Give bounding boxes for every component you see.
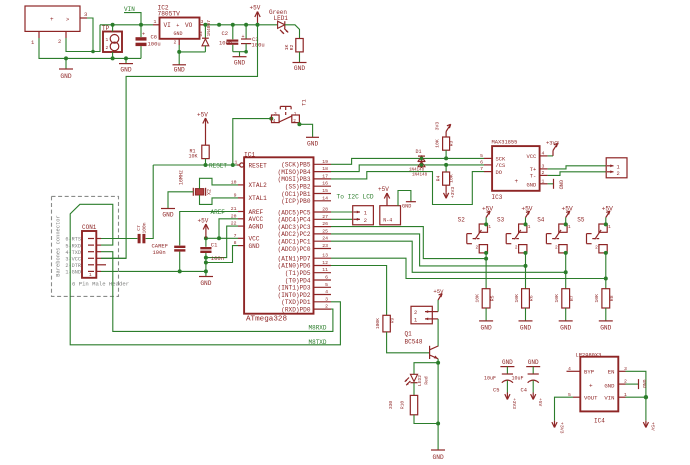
svg-text:9: 9: [234, 192, 237, 198]
pin 20 AVCC: [231, 213, 244, 219]
wire R7 to ground: [565, 308, 567, 321]
dual diode D1 1N4148: [409, 149, 428, 178]
svg-text:VCC: VCC: [249, 236, 260, 243]
supply +3V3 output arrow: [552, 421, 564, 434]
wire R2 to ground: [299, 52, 301, 63]
pin 21 AREF: [231, 206, 244, 212]
svg-text:GND: GND: [174, 31, 183, 37]
wire LED2 branch top: [414, 363, 438, 375]
svg-text:IC4: IC4: [594, 418, 605, 425]
svg-text:100n: 100n: [142, 222, 148, 233]
svg-text:XTAL2: XTAL2: [249, 182, 268, 189]
wire R1 to reset net: [205, 159, 207, 165]
junction S3 top pad: [524, 222, 528, 226]
svg-text:3V3: 3V3: [435, 122, 441, 131]
svg-text:+5V: +5V: [602, 205, 613, 212]
wire SCK pin19 to IC3: [331, 158, 484, 164]
svg-text:C1: C1: [211, 241, 218, 248]
resistor R2 1K: [284, 39, 303, 52]
svg-text:100u: 100u: [148, 41, 161, 48]
svg-text:1: 1: [528, 225, 531, 230]
supply +3V3 at IC3 VCC: [546, 141, 559, 156]
pin 13 PD7: [314, 253, 332, 259]
svg-text:24: 24: [322, 236, 328, 242]
diode D2 1N4007: [198, 20, 212, 52]
svg-text:VIN: VIN: [604, 395, 614, 402]
terminal block TP: [102, 25, 122, 52]
pin 19 PB5: [314, 159, 332, 165]
pin 7 VCC: [234, 233, 244, 239]
svg-text:R10: R10: [399, 401, 405, 410]
pin 25 PC2: [314, 228, 332, 234]
svg-text:T+: T+: [530, 167, 536, 173]
pin 3 of X1: [80, 11, 87, 18]
svg-text:10K: 10K: [435, 139, 441, 148]
svg-text:4: 4: [542, 151, 545, 157]
pin 5 SCK of IC3: [480, 153, 492, 159]
wire XTAL1 loop: [200, 195, 239, 204]
pin 23 PC0: [314, 243, 332, 249]
junction TP ground: [111, 56, 115, 60]
junction S3 sense line: [524, 264, 528, 268]
svg-text:AREF: AREF: [211, 209, 226, 216]
transistor Q1 BC548: [405, 331, 439, 360]
pin 2 GND of IC4: [618, 379, 627, 385]
svg-text:S4: S4: [537, 217, 545, 224]
junction R4: [444, 163, 448, 167]
wire PD7 pin13 to S5: [331, 258, 606, 278]
svg-text:2: 2: [542, 170, 545, 176]
wire S5 column: [605, 253, 607, 289]
capacitor C6 100u: [136, 25, 161, 59]
svg-text:2: 2: [475, 246, 478, 251]
svg-text:4-TXD: 4-TXD: [65, 250, 81, 256]
junction spare on rail: [217, 23, 221, 27]
pin 4 PD2: [314, 289, 332, 295]
svg-text:1: 1: [235, 160, 238, 166]
svg-text:1-GND: 1-GND: [65, 270, 81, 276]
ground under R2: [293, 63, 307, 73]
wire R6 to ground: [525, 308, 527, 321]
svg-text:+5V: +5V: [537, 398, 543, 407]
resistor R1 10K: [189, 145, 210, 159]
wire PC2 pin25 to S3: [331, 234, 526, 266]
svg-text:3: 3: [542, 164, 545, 170]
svg-text:+5V: +5V: [378, 186, 389, 193]
svg-text:2: 2: [595, 246, 598, 251]
pushbutton S3: [497, 217, 531, 253]
thermocouple interface IC3 MAX31855: [492, 140, 540, 201]
svg-text:14: 14: [322, 195, 328, 201]
resistor R5 10K: [475, 289, 496, 308]
ground at crystal: [161, 209, 175, 219]
svg-text:GND: GND: [481, 325, 492, 332]
svg-text:XTAL1: XTAL1: [249, 195, 268, 202]
svg-text:3: 3: [274, 112, 277, 117]
svg-text:R7: R7: [569, 295, 575, 301]
svg-text:AREF: AREF: [249, 209, 264, 216]
capacitor C1 100n: [200, 238, 224, 276]
pin 14 PB0: [314, 195, 332, 201]
svg-text:GND: GND: [560, 325, 571, 332]
wire R10 branch bottom: [414, 415, 438, 424]
svg-text:16MHz: 16MHz: [179, 170, 185, 185]
svg-text:100n: 100n: [211, 255, 224, 262]
wire EN to VIN: [626, 371, 646, 397]
capacitor CAREF 100n: [152, 242, 186, 271]
pin 12 PD6: [314, 260, 332, 266]
microcontroller IC1 ATmega328: [244, 151, 314, 323]
pin 3 Tplus of IC3: [540, 164, 548, 170]
wire DO pin17 loop to IC3: [331, 172, 484, 205]
junction C2 on rail: [231, 23, 235, 27]
svg-text:To I2C LCD: To I2C LCD: [337, 194, 374, 201]
svg-text:3-VCC: 3-VCC: [65, 257, 81, 263]
supply +5V input arrow: [643, 421, 655, 431]
svg-text:2: 2: [293, 119, 296, 124]
resistor R4 10K: [436, 172, 455, 185]
pin 3 PD1: [314, 296, 332, 302]
ground under R5: [479, 321, 493, 332]
svg-text:T1: T1: [301, 99, 308, 106]
svg-text:(TXD)PD1: (TXD)PD1: [281, 299, 311, 306]
ground under R8: [599, 321, 613, 332]
junction C3 on rail: [244, 23, 248, 27]
svg-text:330: 330: [388, 401, 394, 410]
svg-text:3: 3: [325, 296, 328, 302]
wire R9 to Q1 base: [387, 332, 430, 353]
svg-text:CON1: CON1: [82, 224, 97, 231]
ground under IC2: [173, 65, 187, 74]
junction S3 bottom pad: [524, 251, 528, 255]
wire jack pin2 up-over to input rail: [66, 25, 100, 52]
power jack X1: [25, 6, 80, 31]
pin 2 of X1: [58, 31, 66, 45]
svg-text:1N4007: 1N4007: [206, 20, 212, 37]
svg-text:2: 2: [414, 310, 417, 316]
wire SDA pin28 to LCD connector: [331, 211, 353, 213]
svg-text:+3V3: +3V3: [511, 398, 517, 409]
svg-text:2-DTR: 2-DTR: [65, 263, 81, 269]
svg-text:1: 1: [106, 37, 109, 43]
svg-text:VOUT: VOUT: [584, 395, 598, 402]
regulator IC4 LP2980: [576, 352, 619, 424]
wire AVCC to VCC node: [219, 219, 238, 239]
svg-text:100n: 100n: [219, 40, 232, 47]
svg-text:(INT1)PD3: (INT1)PD3: [278, 285, 311, 292]
svg-text:GND: GND: [234, 60, 245, 67]
pin IC2 GND stub: [178, 39, 180, 45]
ground under C1: [199, 277, 213, 288]
junction +5V distribution drop: [256, 23, 260, 27]
svg-text:15: 15: [322, 188, 328, 194]
connector LCD data: [353, 206, 374, 225]
svg-text:LED1: LED1: [274, 15, 289, 22]
junction S2 bottom pad: [484, 251, 488, 255]
junction S4 top pad: [564, 222, 568, 226]
svg-text:(OC1)PB1: (OC1)PB1: [281, 191, 311, 198]
svg-text:+: +: [515, 178, 519, 185]
svg-text:10K: 10K: [554, 294, 560, 303]
junction C6 ground gnd tap: [124, 56, 128, 60]
pin 15 PB1: [314, 188, 332, 194]
svg-text:10K: 10K: [475, 294, 481, 303]
svg-text:5-RXD: 5-RXD: [65, 243, 81, 249]
svg-text:R4: R4: [436, 176, 442, 182]
svg-text:2: 2: [515, 246, 518, 251]
capacitor C4 10uF: [512, 359, 543, 407]
wire SCL pin27 to LCD connector: [331, 218, 353, 220]
supply +5V at R1: [197, 112, 208, 146]
svg-text:+5V: +5V: [562, 205, 573, 212]
ground at LCD power: [402, 202, 416, 210]
svg-text:AGND: AGND: [249, 223, 264, 230]
svg-text:3: 3: [201, 19, 204, 25]
pin 4 VCC of IC3: [540, 151, 548, 157]
supply +3V3 below R4: [444, 185, 457, 198]
wire emitter down to ground: [437, 359, 439, 450]
svg-text:100K: 100K: [375, 318, 381, 329]
svg-text:(RXD)PD0: (RXD)PD0: [281, 307, 311, 314]
pin 11 PD5: [314, 267, 332, 273]
pin 6 PD4: [314, 275, 332, 281]
svg-text:1: 1: [608, 225, 611, 230]
svg-text:4: 4: [325, 289, 328, 295]
svg-text:R2: R2: [289, 45, 295, 51]
pin 6 RTS: [65, 237, 101, 243]
svg-text:19: 19: [322, 159, 328, 165]
svg-text:GND: GND: [641, 380, 647, 389]
junction VCC C1: [204, 236, 208, 240]
wire cap to reset vertical: [146, 165, 154, 239]
svg-text:C7: C7: [136, 225, 142, 231]
svg-text:GND: GND: [60, 73, 71, 80]
svg-text:RESET: RESET: [209, 163, 227, 170]
pushbutton T1: [272, 99, 308, 124]
svg-text:10K: 10K: [189, 154, 198, 160]
connector fan output: [411, 306, 438, 324]
resistor R8 10K: [594, 289, 615, 308]
pin 1 VIN: [618, 392, 627, 398]
resistor R9 100K: [375, 315, 396, 332]
junction C6 on rail: [139, 23, 143, 27]
wire GND pin8: [206, 246, 238, 263]
wire AGND: [206, 226, 238, 258]
pushbutton S5: [577, 217, 611, 253]
svg-text:(ADC0)PC0: (ADC0)PC0: [278, 246, 311, 253]
junction R1 reset: [204, 163, 208, 167]
svg-text:N-4: N-4: [383, 218, 392, 224]
pin 1 RESET of IC1 with bubble: [235, 160, 244, 168]
pin 6 CS of IC3: [480, 160, 492, 166]
pushbutton S4: [537, 217, 571, 253]
svg-text:C2: C2: [222, 30, 229, 37]
svg-text:5: 5: [480, 153, 483, 159]
svg-text:18: 18: [322, 166, 328, 172]
pin 1 of X1: [31, 31, 39, 46]
junction S1 left pad: [269, 117, 273, 121]
svg-text:1: 1: [414, 318, 417, 324]
svg-text:10K: 10K: [514, 294, 520, 303]
wire R3 to SCK line: [445, 150, 447, 158]
capacitor C3 100u: [241, 25, 265, 52]
pin IC2 VI stub: [153, 24, 160, 26]
svg-text:C5: C5: [493, 388, 499, 394]
junction EN VIN: [644, 395, 648, 399]
pin 5 PD3: [314, 282, 332, 288]
wire jack pin1 to ground rail: [39, 38, 141, 58]
svg-text:10K: 10K: [449, 174, 455, 183]
svg-text:6-RTS: 6-RTS: [65, 237, 81, 243]
svg-text:1: 1: [617, 164, 620, 170]
svg-text:(AIN1)PD7: (AIN1)PD7: [278, 255, 311, 262]
svg-text:GND: GND: [558, 180, 564, 189]
svg-text:7: 7: [480, 166, 483, 172]
svg-text:GND: GND: [604, 382, 615, 389]
wire XTAL2 loop: [200, 178, 239, 188]
svg-text:17: 17: [322, 173, 328, 179]
supply +3V3 at R3: [435, 122, 451, 137]
wire IC2 GND down: [178, 45, 180, 65]
pin 22 AGND: [231, 221, 244, 227]
svg-text:2: 2: [174, 40, 177, 46]
ground under Q1: [431, 450, 445, 461]
svg-text:6 Pin Male Header: 6 Pin Male Header: [72, 281, 129, 288]
wire VOUT to 3V3 arrow: [555, 397, 574, 421]
wire PC1 pin24 to S4: [331, 241, 566, 272]
svg-text:GND: GND: [433, 454, 444, 461]
svg-text:+: +: [50, 16, 54, 23]
svg-text:ATmega328: ATmega328: [246, 315, 287, 323]
wire R5 to ground: [485, 308, 487, 321]
svg-text:10uF: 10uF: [512, 375, 524, 381]
pin 8 GND: [234, 240, 244, 246]
svg-text:(SCK)PB5: (SCK)PB5: [281, 162, 311, 169]
svg-text:/CS: /CS: [496, 163, 506, 169]
junction D2 on rail: [203, 23, 207, 27]
svg-text:(T0)PD4: (T0)PD4: [285, 277, 311, 284]
svg-text:R9: R9: [390, 318, 396, 324]
svg-text:+5V: +5V: [250, 5, 261, 12]
ground at IC4: [626, 379, 648, 389]
svg-text:100n: 100n: [153, 249, 166, 256]
wire RESET net: [153, 164, 237, 166]
supply +5V at S5: [602, 205, 613, 224]
junction C1 gnd row: [204, 269, 208, 273]
pin 18 PB4: [314, 166, 332, 172]
svg-text:GND: GND: [526, 182, 536, 188]
junction AVCC VCC: [217, 236, 221, 240]
svg-text:13: 13: [322, 253, 328, 259]
LED LED1 Green: [269, 9, 288, 34]
wire R8 to ground: [605, 308, 607, 321]
svg-text:3: 3: [84, 11, 87, 18]
svg-text:C6: C6: [151, 34, 158, 41]
junction C3 ground link: [244, 50, 248, 54]
svg-text:1: 1: [364, 211, 367, 217]
wire +5V distribution: [101, 25, 258, 258]
svg-text:BC548: BC548: [405, 338, 423, 345]
svg-text:R3: R3: [449, 141, 455, 147]
dashed box barebones connector: [52, 196, 119, 296]
capacitor C2 100n: [219, 25, 238, 52]
junction S1 reset: [231, 163, 235, 167]
junction LED branch top: [436, 361, 440, 365]
pin 28 PC5: [314, 207, 332, 213]
junction TP on VIN rail: [111, 23, 115, 27]
junction S5 sense line: [604, 277, 608, 281]
junction CAREF gnd row: [178, 269, 182, 273]
junction LED branch bottom: [436, 422, 440, 426]
svg-text:GND: GND: [600, 325, 611, 332]
svg-text:100u: 100u: [252, 42, 265, 49]
wire CS pin18 to IC3: [331, 165, 484, 172]
wire S1 right pad to gnd: [299, 123, 312, 138]
supply +5V at fan connector: [433, 288, 444, 312]
wire VCC: [206, 237, 238, 239]
svg-text:+5V: +5V: [650, 422, 656, 431]
pin 16 PB2: [314, 181, 332, 187]
wire VIN row: [626, 396, 646, 398]
wire VIN rail: [100, 24, 153, 26]
supply +5V at S2: [482, 205, 493, 224]
pushbutton S2: [458, 217, 492, 253]
svg-text:(MISO)PB4: (MISO)PB4: [278, 169, 311, 176]
svg-text:10K: 10K: [594, 294, 600, 303]
svg-text:AVCC: AVCC: [249, 216, 264, 223]
svg-text:(ADC3)PC3: (ADC3)PC3: [278, 224, 311, 231]
junction pin3/pin2 wire: [91, 50, 95, 54]
supply +5V on rail: [250, 5, 261, 25]
wire LED1 to R2: [285, 25, 300, 39]
pin 1 GND: [65, 270, 101, 276]
pin 5 VOUT: [568, 392, 580, 398]
svg-text:+: +: [142, 32, 145, 38]
ground at IC3: [548, 179, 564, 190]
LED LED2 Red: [405, 374, 430, 386]
wire S2 column: [485, 253, 487, 289]
svg-text:M8TXD: M8TXD: [309, 339, 327, 346]
svg-text:+3V3: +3V3: [450, 187, 456, 199]
wire ground to diode D2: [179, 51, 205, 53]
thermocouple connector X1: [606, 158, 627, 178]
wire crystal to ground: [168, 192, 193, 209]
wire Tminus to thermocouple connector: [548, 172, 607, 176]
pin 3 VCC: [65, 257, 101, 263]
ground under T1: [306, 137, 319, 147]
svg-text:(ADC4)PC4: (ADC4)PC4: [278, 217, 311, 224]
junction AGND: [204, 256, 208, 260]
svg-text:5: 5: [325, 282, 328, 288]
svg-text:1: 1: [542, 178, 545, 184]
svg-text:23: 23: [322, 243, 328, 249]
junction GND tap under jack: [64, 56, 68, 60]
svg-text:11: 11: [322, 267, 328, 273]
svg-text:(AIN0)PD6: (AIN0)PD6: [278, 263, 311, 270]
svg-text:+: +: [176, 23, 179, 29]
svg-text:6: 6: [480, 160, 483, 166]
pin 10 XTAL2: [231, 179, 244, 185]
pin IC2 VO stub: [200, 24, 207, 26]
svg-text:M8RXD: M8RXD: [309, 325, 327, 332]
svg-text:>: >: [66, 16, 69, 23]
svg-text:VO: VO: [185, 22, 193, 29]
svg-text:10: 10: [231, 179, 237, 185]
svg-text:GND: GND: [502, 359, 513, 366]
wire VCC row: [101, 257, 126, 259]
wire RXD row loop to M8TXD: [70, 204, 340, 344]
svg-text:+3V3: +3V3: [546, 141, 559, 147]
